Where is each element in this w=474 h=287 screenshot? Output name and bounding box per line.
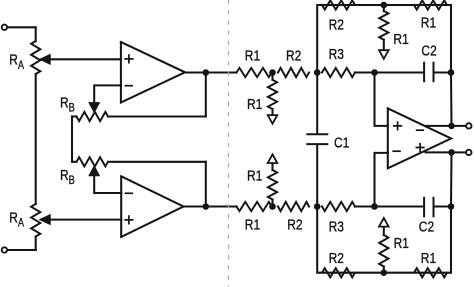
resistor R1 (bottom shunt) xyxy=(268,170,277,200)
resistor R1 (top series) xyxy=(237,68,272,77)
wire xyxy=(375,153,388,207)
arrow to negative supply xyxy=(379,218,389,227)
node xyxy=(371,69,378,76)
node xyxy=(448,203,455,210)
output terminal J3 (top) xyxy=(466,123,471,128)
node: U2 output xyxy=(203,203,210,210)
wire xyxy=(271,73,273,80)
wire xyxy=(383,227,385,236)
svg-text:R2: R2 xyxy=(329,250,344,267)
op-amp U2 xyxy=(121,176,183,237)
resistor R3 (bottom series) xyxy=(322,202,355,211)
svg-text:C2: C2 xyxy=(421,42,436,59)
node xyxy=(314,69,321,76)
plus input marker of U3 xyxy=(393,121,402,130)
wire xyxy=(317,5,451,73)
wire xyxy=(271,163,273,170)
potentiometer RB (top) xyxy=(77,112,109,121)
minus input marker of U3 xyxy=(392,150,400,152)
node xyxy=(381,269,388,276)
node xyxy=(371,203,378,210)
wire xyxy=(108,161,206,163)
svg-text:R1: R1 xyxy=(421,14,436,31)
resistor R1 (top feedback) xyxy=(414,0,447,9)
wire xyxy=(426,125,466,127)
wiper arrow of RB top xyxy=(89,103,99,113)
potentiometer RA (top) xyxy=(31,41,40,74)
svg-text:R3: R3 xyxy=(329,218,344,235)
minus input marker of U2 xyxy=(125,192,133,194)
wire xyxy=(72,161,77,163)
node: U3 output+ xyxy=(448,123,455,130)
arrow to negative supply xyxy=(268,115,278,124)
wire xyxy=(426,151,466,153)
wire xyxy=(375,71,424,73)
plus input marker of U1 xyxy=(124,54,133,63)
resistor R1 (top shunt) xyxy=(268,80,277,109)
wire xyxy=(35,237,37,251)
wire xyxy=(383,267,385,273)
wire xyxy=(71,117,73,162)
svg-text:R2: R2 xyxy=(329,16,344,33)
wire xyxy=(271,109,273,115)
wire xyxy=(271,200,273,207)
svg-text:R1: R1 xyxy=(394,235,409,252)
node xyxy=(448,69,455,76)
resistor R1 (bottom series) xyxy=(237,202,272,211)
op-amp U1 xyxy=(121,42,185,103)
wire xyxy=(185,71,237,73)
input terminal J1 (top) xyxy=(2,25,7,30)
node xyxy=(381,2,388,9)
svg-text:R1: R1 xyxy=(247,167,262,184)
plus input marker of U2 xyxy=(124,215,133,224)
resistor R1 (bottom rail shunt) xyxy=(379,235,388,267)
capacitor C1 xyxy=(307,134,327,144)
wire xyxy=(94,175,121,193)
wire xyxy=(108,115,206,117)
wire xyxy=(50,58,121,60)
wire xyxy=(317,207,451,273)
svg-text:R1: R1 xyxy=(245,216,260,233)
wire xyxy=(435,205,452,207)
wire xyxy=(184,205,237,207)
svg-text:R1: R1 xyxy=(393,31,408,48)
resistor R2 (bottom series) xyxy=(278,202,309,211)
wire xyxy=(383,5,385,11)
wire xyxy=(8,249,36,251)
arrow to negative supply xyxy=(379,50,389,59)
svg-text:R1: R1 xyxy=(245,47,260,64)
output terminal J4 (bottom) xyxy=(466,150,471,155)
input terminal J2 (bottom) xyxy=(2,247,7,252)
plus output marker of U3 xyxy=(416,143,425,152)
wire xyxy=(450,152,453,206)
wire xyxy=(205,162,207,207)
wire xyxy=(72,115,77,117)
wire xyxy=(435,71,452,73)
capacitor C2 (top) xyxy=(424,63,433,81)
minus input marker of U1 xyxy=(125,85,133,87)
wire xyxy=(94,85,121,103)
wire xyxy=(450,73,453,126)
svg-text:R2: R2 xyxy=(287,216,302,233)
wire xyxy=(50,219,121,221)
wiper arrow of RA top xyxy=(40,54,51,64)
svg-text:R2: R2 xyxy=(286,47,301,64)
resistor R2 (bottom feedback) xyxy=(322,268,355,277)
svg-text:R1: R1 xyxy=(421,250,436,267)
wire xyxy=(35,27,37,41)
svg-text:C2: C2 xyxy=(419,218,434,235)
wire xyxy=(355,205,375,207)
node xyxy=(269,69,276,76)
wire xyxy=(316,145,318,207)
node: U1 output xyxy=(203,69,210,76)
resistor R3 (top series) xyxy=(322,68,355,77)
node: U3 output- xyxy=(448,149,455,156)
minus output marker of U3 xyxy=(416,129,424,131)
potentiometer RA (bottom) xyxy=(31,204,40,237)
resistor R2 (top feedback) xyxy=(322,0,355,9)
wire xyxy=(316,73,318,134)
resistor R1 (bottom feedback) xyxy=(414,268,447,277)
wire xyxy=(375,73,388,126)
op-amp U3 (fully differential) xyxy=(388,108,451,168)
potentiometer RB (bottom) xyxy=(77,157,109,166)
capacitor C2 (bottom) xyxy=(424,198,433,217)
resistor R1 (top rail shunt) xyxy=(379,11,388,40)
node xyxy=(269,203,276,210)
wire xyxy=(355,71,375,73)
wire xyxy=(375,205,424,207)
svg-text:R3: R3 xyxy=(329,46,344,63)
wiper arrow of RA bottom xyxy=(40,215,51,225)
wire xyxy=(205,73,207,117)
dashed boundary line xyxy=(228,0,230,287)
wire xyxy=(35,74,37,204)
node xyxy=(314,203,321,210)
wire xyxy=(8,26,36,28)
wire xyxy=(383,40,385,51)
arrow to negative supply xyxy=(268,154,278,163)
wiper arrow of RB bottom xyxy=(89,166,99,176)
resistor R2 (top series) xyxy=(278,68,309,77)
svg-text:R1: R1 xyxy=(247,96,262,113)
svg-text:C1: C1 xyxy=(334,134,349,151)
